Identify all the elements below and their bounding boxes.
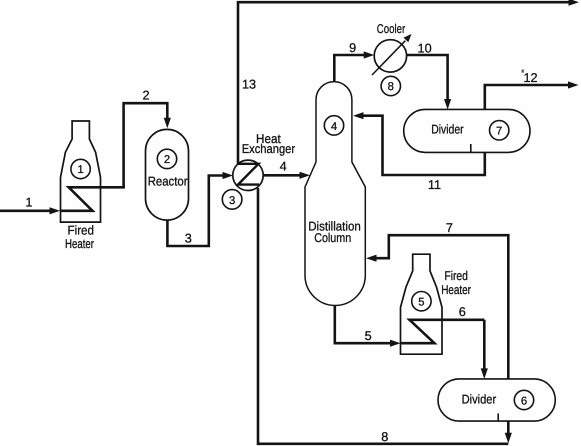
heat exchanger Z tubes xyxy=(238,164,260,185)
wire stream 4 xyxy=(263,174,302,177)
arrowhead stream 13 xyxy=(569,0,580,6)
wire stream 11 xyxy=(363,116,485,175)
circled label 8 xyxy=(381,76,400,95)
wire stream 10 xyxy=(407,55,448,101)
wire stream 12 xyxy=(485,85,569,110)
arrowhead stream 6 xyxy=(481,368,488,379)
wire stream 9 xyxy=(334,55,365,82)
svg-text:4: 4 xyxy=(280,160,287,174)
wire stream 2 xyxy=(124,103,168,188)
svg-text:2: 2 xyxy=(142,88,149,102)
svg-text:Cooler: Cooler xyxy=(377,22,406,36)
circled label 4 xyxy=(324,116,343,135)
svg-text:12: 12 xyxy=(523,71,537,85)
svg-text:Divider: Divider xyxy=(462,393,497,407)
fired heater F2 body xyxy=(401,254,443,354)
circled label 3 xyxy=(222,190,242,210)
cooler diagonal arrow xyxy=(372,41,405,75)
divider 7 tick xyxy=(470,144,472,152)
svg-text:10: 10 xyxy=(418,42,432,56)
svg-text:4: 4 xyxy=(331,121,337,133)
wire stream 1 xyxy=(0,210,51,213)
svg-text:2: 2 xyxy=(164,154,170,166)
circled label 5 xyxy=(412,292,431,311)
wire stream 6 xyxy=(483,320,486,370)
wire stream 3 xyxy=(167,176,224,247)
divider 6 tick xyxy=(497,413,499,421)
arrowhead stream 4 xyxy=(300,172,311,179)
arrowhead stream 11 xyxy=(353,112,364,119)
svg-text:6: 6 xyxy=(459,305,466,319)
heat exchanger E1 circle xyxy=(233,160,263,190)
wire stream 8 xyxy=(258,188,508,444)
arrowhead stream 12 xyxy=(568,81,579,88)
cooler E2 circle xyxy=(374,40,406,72)
arrowhead stream 10 xyxy=(444,99,451,110)
svg-text:8: 8 xyxy=(381,430,388,444)
svg-text:5: 5 xyxy=(365,329,372,343)
svg-text:13: 13 xyxy=(242,78,256,92)
svg-text:1: 1 xyxy=(77,164,83,176)
coil zigzag F2 xyxy=(401,320,485,343)
divider S1 body (7) xyxy=(404,109,530,152)
svg-text:8: 8 xyxy=(388,81,394,93)
svg-text:6: 6 xyxy=(521,396,527,408)
svg-text:Heater: Heater xyxy=(441,283,471,297)
svg-text:Heater: Heater xyxy=(65,237,95,251)
arrowhead stream 3 xyxy=(223,172,234,179)
fired heater F1 body xyxy=(61,121,101,222)
svg-text:Reactor: Reactor xyxy=(148,175,188,189)
svg-text:Column: Column xyxy=(314,231,351,245)
svg-text:9: 9 xyxy=(349,41,356,55)
divider S2 body (6) xyxy=(438,379,555,421)
svg-text:7: 7 xyxy=(496,126,502,138)
arrowhead stream 1 xyxy=(50,207,61,214)
coil zigzag F1 xyxy=(61,187,125,211)
svg-text:Fired: Fired xyxy=(444,269,468,283)
arrowhead stream 9 xyxy=(364,51,375,58)
arrowhead stream 7 xyxy=(366,255,377,262)
svg-text:3: 3 xyxy=(229,195,235,207)
svg-text:1: 1 xyxy=(25,196,32,210)
svg-text:3: 3 xyxy=(185,232,192,246)
svg-text:5: 5 xyxy=(418,296,424,308)
arrowhead stream 2 xyxy=(164,118,171,129)
distillation column body xyxy=(305,82,365,306)
circled label 2 xyxy=(157,149,176,168)
svg-text:Exchanger: Exchanger xyxy=(242,142,296,156)
circled label 1 xyxy=(71,159,90,178)
svg-text:7: 7 xyxy=(446,221,453,235)
arrowhead stream 8 xyxy=(505,433,512,444)
circled label 7 xyxy=(490,121,509,140)
wire stream 7 xyxy=(376,235,509,379)
arrowhead stream 5 xyxy=(390,340,401,347)
wire stream 5 xyxy=(335,304,391,344)
speck above 12 xyxy=(522,70,524,73)
reactor body xyxy=(146,129,189,220)
svg-text:11: 11 xyxy=(428,178,441,192)
svg-text:Fired: Fired xyxy=(68,223,95,237)
wire stream 13 xyxy=(238,2,570,166)
svg-text:Divider: Divider xyxy=(431,123,464,137)
circled label 6 xyxy=(514,390,533,409)
